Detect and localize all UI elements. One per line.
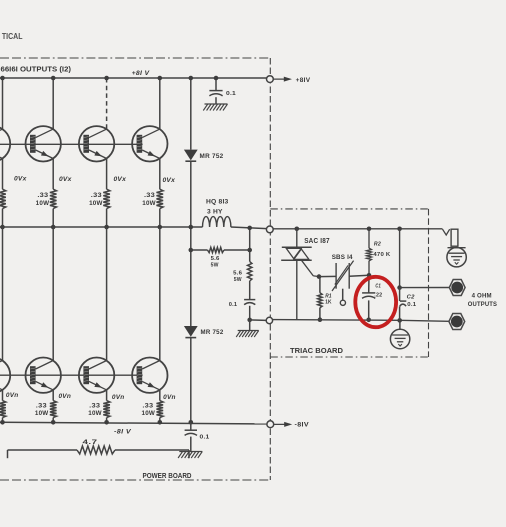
- svg-text:470 K: 470 K: [373, 252, 391, 258]
- svg-text:3 HY: 3 HY: [207, 209, 223, 216]
- svg-text:.33: .33: [37, 192, 48, 199]
- svg-text:R2: R2: [374, 242, 382, 248]
- svg-text:10W: 10W: [142, 200, 156, 207]
- svg-text:0Vx: 0Vx: [163, 177, 176, 184]
- svg-text:0Vx: 0Vx: [114, 176, 127, 183]
- svg-text:10W: 10W: [36, 200, 50, 207]
- svg-text:0Vx: 0Vx: [59, 176, 72, 183]
- svg-text:MR 752: MR 752: [201, 329, 224, 336]
- svg-text:4 OHM: 4 OHM: [472, 293, 492, 300]
- svg-text:-8IV: -8IV: [295, 423, 310, 429]
- svg-text:4.7: 4.7: [83, 440, 99, 446]
- svg-text:MR 752: MR 752: [200, 153, 224, 160]
- svg-text:0.1: 0.1: [407, 302, 417, 308]
- svg-text:TICAL: TICAL: [2, 31, 23, 41]
- svg-text:POWER BOARD: POWER BOARD: [143, 473, 192, 480]
- svg-text:SAC I87: SAC I87: [304, 238, 330, 245]
- svg-text:.33: .33: [89, 403, 100, 410]
- svg-text:5.6: 5.6: [233, 271, 243, 277]
- svg-text:C1: C1: [375, 284, 381, 290]
- svg-text:0Vn: 0Vn: [59, 393, 72, 400]
- svg-text:-8I V: -8I V: [114, 429, 132, 435]
- svg-text:0.1: 0.1: [226, 91, 237, 97]
- svg-text:1K: 1K: [325, 299, 332, 305]
- svg-text:0Vn: 0Vn: [163, 394, 176, 401]
- svg-text:10W: 10W: [35, 410, 49, 417]
- svg-text:+8IV: +8IV: [296, 78, 311, 84]
- svg-text:HQ 8I3: HQ 8I3: [206, 199, 229, 206]
- svg-text:0Vn: 0Vn: [6, 392, 19, 399]
- svg-text:5W: 5W: [234, 277, 242, 283]
- svg-text:10W: 10W: [142, 410, 156, 417]
- svg-text:0Vn: 0Vn: [112, 394, 125, 401]
- svg-text:0Vx: 0Vx: [14, 175, 27, 182]
- svg-text:0.1: 0.1: [229, 302, 238, 308]
- svg-text:10W: 10W: [89, 200, 103, 207]
- svg-text:66I6I OUTPUTS (I2): 66I6I OUTPUTS (I2): [1, 66, 72, 73]
- svg-text:5W: 5W: [211, 262, 219, 268]
- svg-text:.33: .33: [142, 403, 153, 410]
- svg-text:10W: 10W: [88, 410, 102, 417]
- svg-text:.33: .33: [91, 192, 102, 199]
- svg-text:TRIAC BOARD: TRIAC BOARD: [290, 348, 343, 355]
- svg-text:5.6: 5.6: [211, 256, 221, 262]
- svg-text:.22: .22: [374, 293, 382, 299]
- svg-text:+8I V: +8I V: [132, 70, 150, 77]
- svg-text:OUTPUTS: OUTPUTS: [468, 301, 498, 308]
- svg-text:C2: C2: [407, 294, 416, 300]
- svg-text:.33: .33: [144, 192, 155, 199]
- svg-text:SBS I4: SBS I4: [332, 254, 353, 261]
- svg-text:0.1: 0.1: [200, 435, 211, 441]
- svg-text:.33: .33: [36, 403, 47, 410]
